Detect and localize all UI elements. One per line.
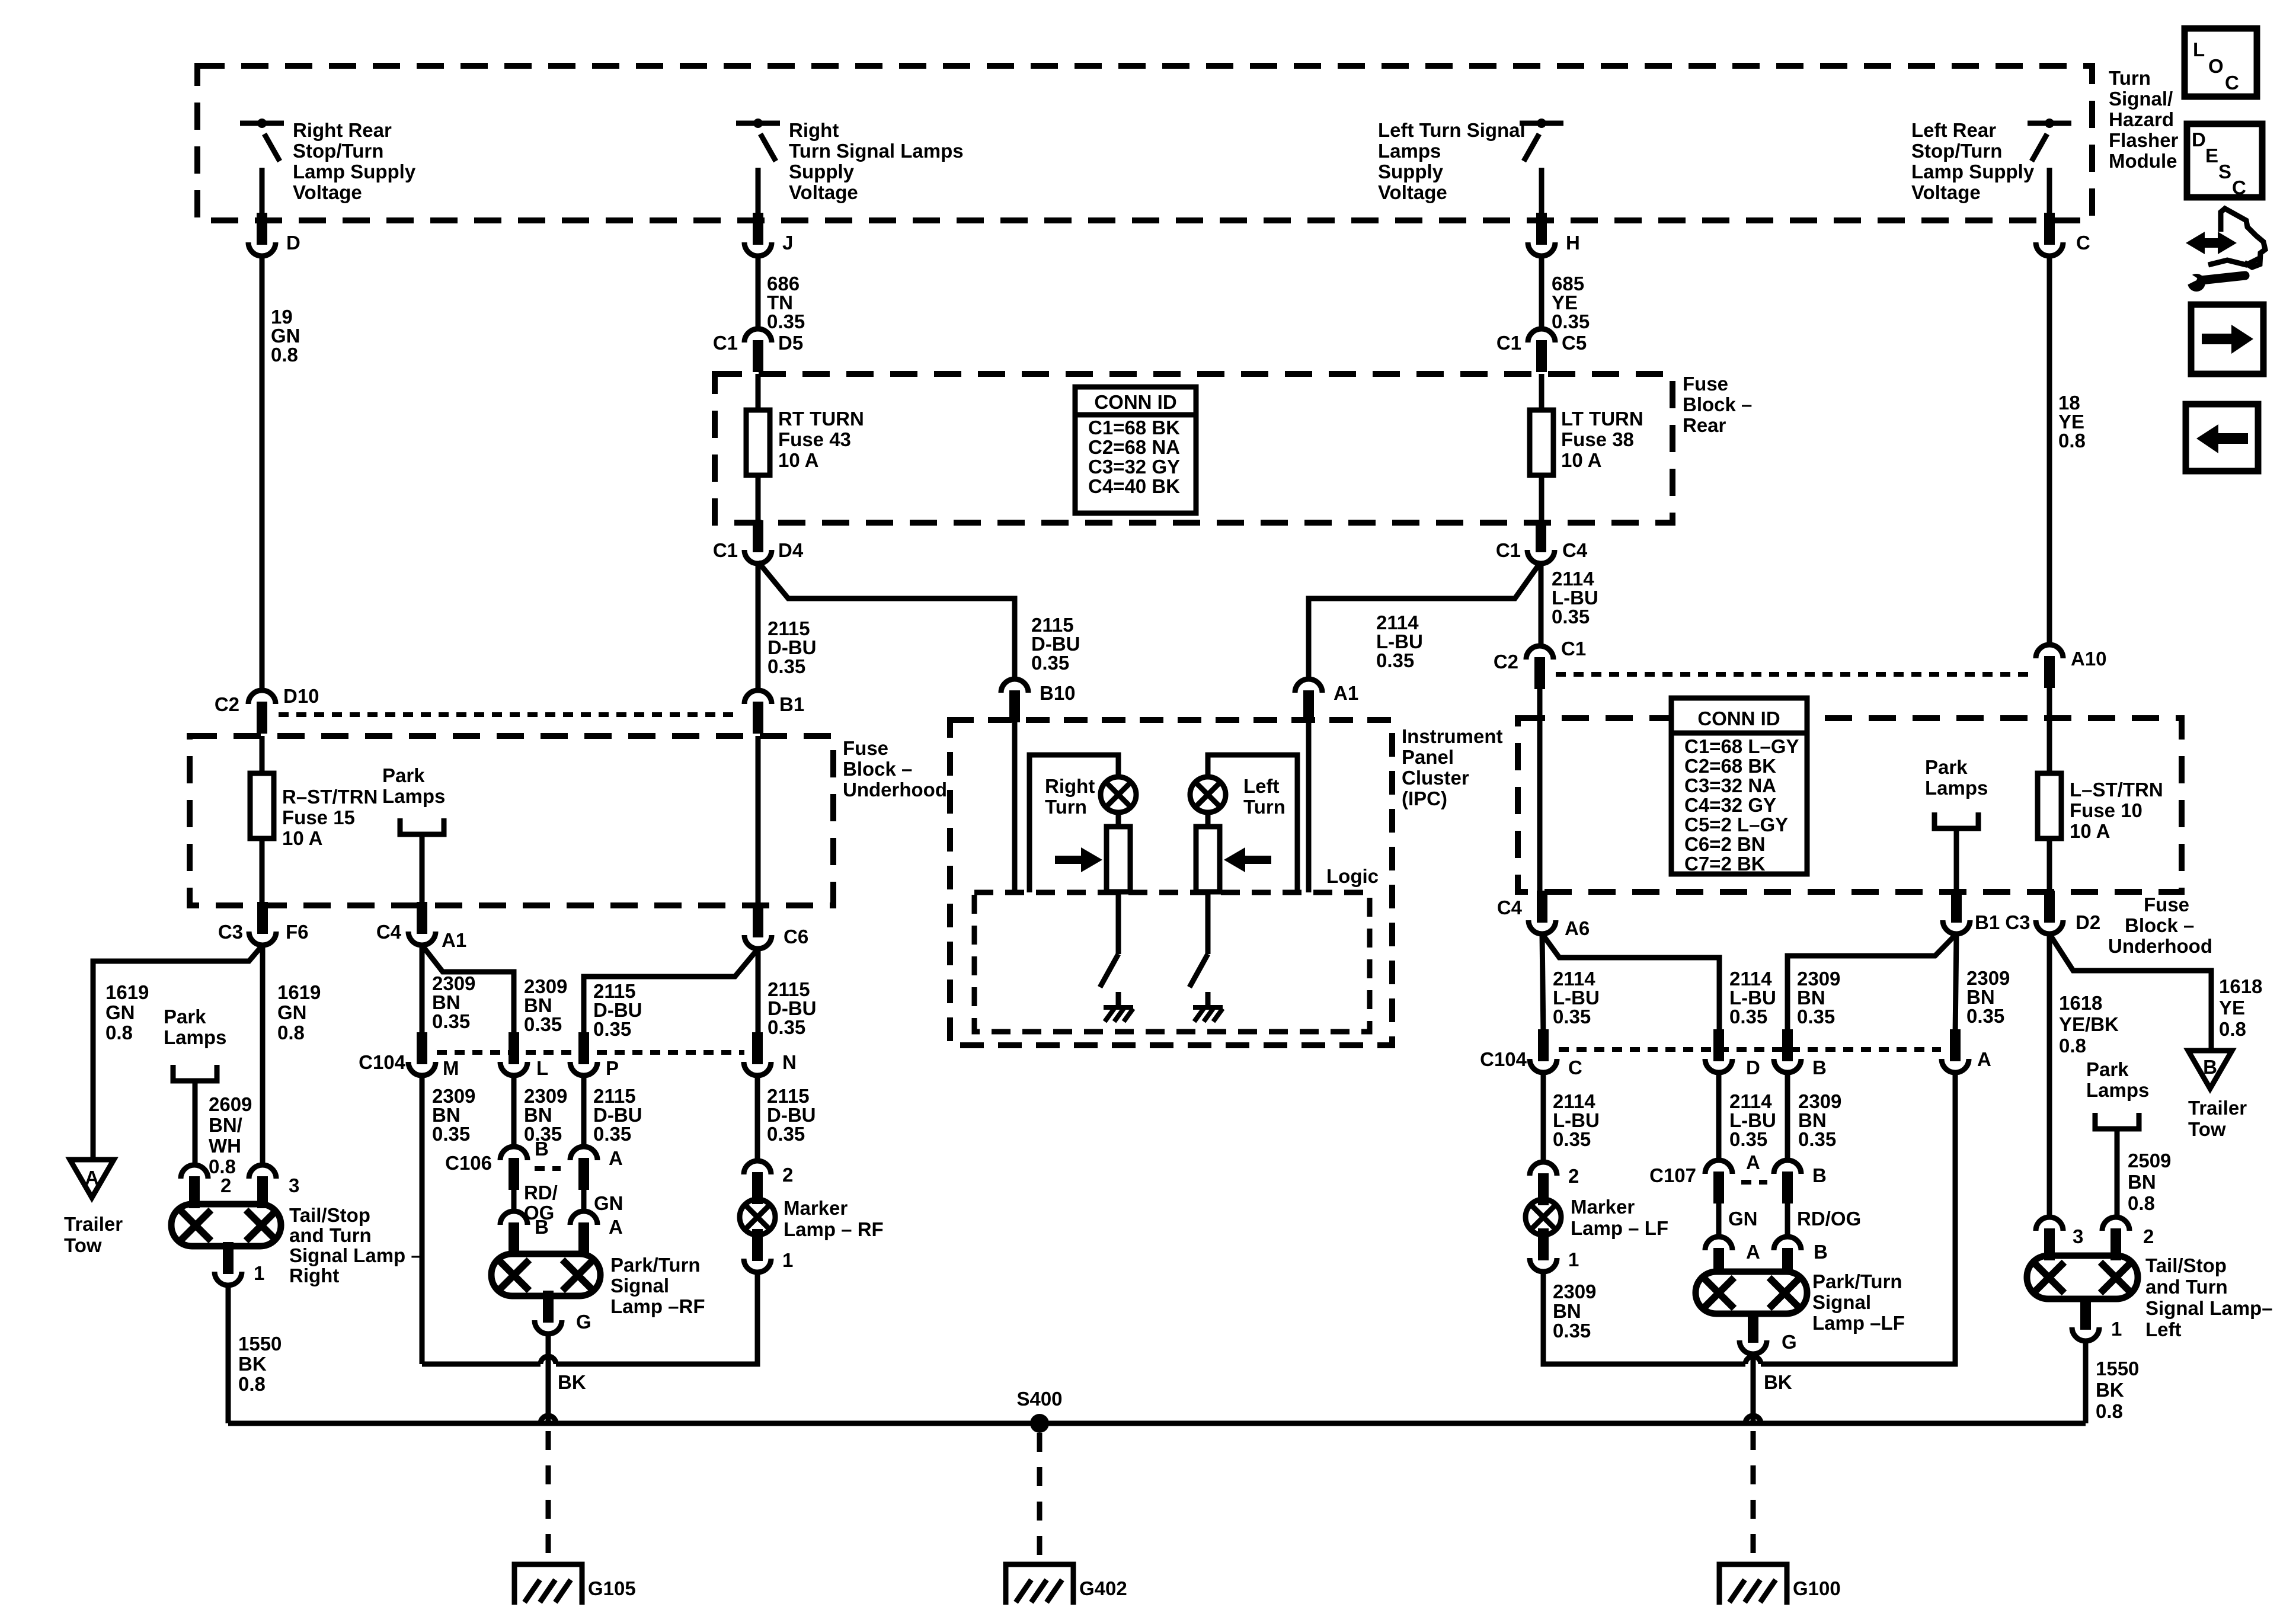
svg-text:Cluster: Cluster — [1402, 767, 1469, 789]
svg-text:C2=68 BK: C2=68 BK — [1684, 755, 1776, 777]
svg-text:A1: A1 — [1334, 682, 1358, 704]
svg-text:0.35: 0.35 — [1552, 311, 1590, 332]
resistor left turn — [1196, 827, 1220, 892]
svg-text:C1: C1 — [713, 539, 738, 561]
svg-text:B10: B10 — [1040, 682, 1076, 704]
svg-text:C3: C3 — [218, 921, 243, 943]
svg-text:B: B — [535, 1138, 549, 1160]
tail/stop and turn signal lamp right — [171, 1204, 281, 1246]
svg-text:G402: G402 — [1079, 1577, 1127, 1599]
svg-text:A: A — [609, 1147, 623, 1169]
svg-text:Turn Signal Lamps: Turn Signal Lamps — [789, 140, 964, 162]
connector C104 row right, dotted — [1559, 1047, 1941, 1052]
fuse R-ST/TRN Fuse 15 10A — [250, 773, 274, 838]
svg-text:Voltage: Voltage — [789, 181, 858, 203]
svg-text:Fuse 10: Fuse 10 — [2070, 799, 2142, 821]
wire: 2114 L-BU branch from A6 to C104 D — [1542, 934, 1719, 1035]
svg-text:BK: BK — [238, 1353, 267, 1375]
svg-text:S: S — [2218, 161, 2231, 183]
svg-text:A: A — [85, 1167, 99, 1189]
svg-text:A: A — [1977, 1048, 1991, 1070]
ground G105 — [514, 1564, 582, 1605]
svg-text:0.8: 0.8 — [277, 1022, 305, 1044]
svg-text:0.8: 0.8 — [2059, 1035, 2086, 1057]
logic box — [974, 892, 1370, 1032]
svg-text:Panel: Panel — [1402, 746, 1454, 768]
svg-text:WH: WH — [209, 1135, 241, 1157]
fuse RT TURN Fuse 43 10A — [746, 410, 770, 475]
park/turn signal lamp RF — [491, 1254, 600, 1296]
tail/stop left pin 1 — [2072, 1327, 2099, 1341]
wire loop logic to right turn indicator — [1029, 755, 1118, 892]
park/turn LF lamp pin A — [1705, 1237, 1732, 1250]
connector pin B1 (underhood) — [744, 690, 772, 704]
svg-text:1: 1 — [782, 1249, 793, 1271]
svg-text:Fuse: Fuse — [2144, 894, 2189, 916]
connector C3 pin F6 — [249, 932, 276, 945]
svg-text:Lamp Supply: Lamp Supply — [1911, 161, 2035, 183]
svg-text:C4=32 GY: C4=32 GY — [1684, 794, 1776, 816]
svg-text:C7=2 BK: C7=2 BK — [1684, 853, 1766, 875]
marker lamp RF pin 1 — [744, 1259, 771, 1272]
svg-text:Block –: Block – — [843, 758, 912, 780]
svg-text:B: B — [1812, 1164, 1827, 1186]
svg-text:RT TURN: RT TURN — [778, 408, 864, 430]
connector pin D of flasher module — [248, 242, 276, 256]
wire: 2114 L-BU from A6 down to C104 C — [1542, 934, 1543, 1035]
svg-text:Tow: Tow — [64, 1234, 102, 1256]
wire: 2309 BN from B1C3 down to C104 A — [1955, 934, 1956, 1035]
wire bulb to resistor — [1116, 812, 1121, 827]
tail/stop lamp right pin 3 — [249, 1165, 276, 1179]
svg-text:A6: A6 — [1565, 917, 1590, 939]
wire park lamps to B1C3 — [1954, 828, 1959, 891]
svg-text:0.35: 0.35 — [593, 1018, 631, 1040]
svg-text:0.35: 0.35 — [1553, 1006, 1591, 1028]
svg-text:0.8: 0.8 — [2219, 1018, 2246, 1040]
connector C4 pin A6 — [1528, 920, 1556, 934]
switch to ground (left turn) — [1205, 892, 1211, 954]
svg-text:B1 C3: B1 C3 — [1975, 911, 2030, 933]
svg-text:C104: C104 — [1480, 1048, 1527, 1070]
wire 2309 BN from C104 A to splice run — [1761, 1073, 1955, 1364]
svg-text:10 A: 10 A — [282, 827, 322, 849]
svg-text:Left: Left — [1243, 775, 1280, 797]
right turn signal switch — [736, 121, 780, 126]
svg-text:0.35: 0.35 — [1966, 1005, 2004, 1027]
svg-text:C3=32 GY: C3=32 GY — [1088, 456, 1180, 478]
svg-text:BK: BK — [558, 1371, 586, 1393]
fuse block rear box — [715, 374, 1673, 523]
wire: 1618 YE/BK 0.8 from D2 to tail lamp left pin 3 — [2047, 934, 2052, 1217]
svg-text:0.35: 0.35 — [1797, 1006, 1835, 1028]
svg-text:C4=40 BK: C4=40 BK — [1088, 475, 1180, 497]
ground drop G105 — [546, 1431, 551, 1566]
svg-text:Turn: Turn — [1045, 796, 1087, 818]
svg-text:1618: 1618 — [2219, 975, 2262, 997]
svg-text:BN/: BN/ — [209, 1114, 242, 1136]
connector pin J of flasher module — [744, 242, 772, 256]
park/turn RF lamp pin B — [500, 1211, 527, 1225]
svg-text:Trailer: Trailer — [2188, 1097, 2247, 1119]
wire: 2114 L-BU branch from C4 to IPC A1 — [1309, 562, 1541, 679]
svg-text:C3=32 NA: C3=32 NA — [1684, 774, 1776, 796]
svg-text:Voltage: Voltage — [1911, 181, 1981, 203]
svg-text:L: L — [2193, 39, 2205, 60]
svg-text:Fuse: Fuse — [1683, 373, 1728, 395]
wire 1550 BK 0.8 pin1 to ground bus — [2083, 1341, 2089, 1423]
svg-text:C1: C1 — [713, 332, 738, 354]
svg-text:1619: 1619 — [277, 981, 321, 1003]
wire marker RF pin1 to splice run — [556, 1272, 757, 1364]
connector C107 pin B — [1774, 1160, 1801, 1174]
svg-text:G105: G105 — [588, 1577, 636, 1599]
connector C104 pin D — [1705, 1059, 1732, 1073]
wire 2114 L-BU 0.35 from C104 D to C107 A — [1716, 1073, 1722, 1160]
wire bulb to resistor — [1205, 812, 1211, 827]
svg-text:C1: C1 — [1496, 539, 1521, 561]
svg-text:M: M — [443, 1057, 459, 1079]
svg-text:Rear: Rear — [1683, 414, 1726, 436]
svg-text:BN: BN — [1553, 1300, 1581, 1322]
ground drop G100 — [1751, 1431, 1756, 1566]
wire: 2309 BN branch from B1C3 to C104 B — [1787, 934, 1956, 1035]
svg-text:D2: D2 — [2076, 911, 2100, 933]
svg-text:Voltage: Voltage — [1378, 181, 1447, 203]
svg-text:Lamp – LF: Lamp – LF — [1571, 1217, 1668, 1239]
svg-text:0.35: 0.35 — [1553, 1320, 1591, 1342]
svg-text:Fuse 38: Fuse 38 — [1561, 428, 1634, 450]
fuse block underhood (right) box — [1518, 718, 2182, 892]
svg-text:C4: C4 — [1562, 539, 1588, 561]
svg-text:Left: Left — [2145, 1318, 2182, 1340]
svg-text:B1: B1 — [779, 693, 804, 715]
svg-text:Stop/Turn: Stop/Turn — [1911, 140, 2002, 162]
svg-text:0.8: 0.8 — [105, 1022, 133, 1044]
svg-text:Park: Park — [2086, 1058, 2129, 1080]
tail/stop and turn signal lamp left — [2027, 1256, 2138, 1299]
wire loop logic to left turn indicator — [1208, 755, 1297, 892]
wire: 1618 YE branch from D2 to trailer tow B — [2049, 934, 2211, 1051]
connector C104 pin L — [500, 1062, 527, 1076]
connector pin C of flasher module — [2036, 242, 2063, 256]
connector C2 pin D10 — [248, 690, 276, 704]
ground G100 — [1719, 1564, 1787, 1605]
connector C104 row left, dotted — [437, 1050, 744, 1055]
svg-text:Module: Module — [2109, 150, 2177, 172]
svg-text:2: 2 — [1568, 1165, 1579, 1187]
wire: 2115 D-BU from C6 down to C104 N — [756, 949, 761, 1038]
wire RD/OG C106 B to lamp pin B — [511, 1190, 517, 1211]
svg-text:0.35: 0.35 — [767, 311, 805, 332]
park/turn RF lamp pin A — [570, 1211, 597, 1225]
svg-text:C104: C104 — [359, 1051, 406, 1073]
switch to ground (right turn) — [1116, 892, 1121, 954]
wire: circuit 19 GN 0.8 from module D down to fuse block underhood — [260, 256, 265, 690]
svg-text:RD/: RD/ — [524, 1182, 558, 1204]
wire: circuit 686 TN 0.35 from module J to fuse block rear — [756, 256, 761, 329]
svg-text:0.35: 0.35 — [1729, 1128, 1767, 1150]
svg-text:D: D — [286, 232, 300, 254]
svg-text:C2: C2 — [1494, 651, 1518, 673]
svg-text:Instrument: Instrument — [1402, 725, 1503, 747]
connector C107 pin A — [1705, 1160, 1732, 1174]
svg-text:D5: D5 — [778, 332, 803, 354]
wire 2309 BN 0.35 from C104 B to C107 B — [1785, 1073, 1790, 1160]
svg-text:C: C — [2232, 177, 2246, 199]
marker lamp LF pin 1 — [1530, 1258, 1557, 1272]
svg-text:Turn: Turn — [2109, 67, 2151, 89]
svg-text:C1=68 BK: C1=68 BK — [1088, 417, 1180, 438]
svg-text:E: E — [2205, 145, 2218, 167]
wire: 2309 BN branch from A1 to C104 L — [422, 945, 514, 1038]
svg-text:2: 2 — [782, 1164, 793, 1186]
svg-text:Flasher: Flasher — [2109, 129, 2179, 151]
splice S400 — [1030, 1414, 1049, 1433]
svg-text:RD/OG: RD/OG — [1797, 1208, 1861, 1230]
svg-text:0.35: 0.35 — [432, 1010, 470, 1032]
svg-text:B: B — [1812, 1057, 1827, 1078]
connector C104 pin P — [570, 1062, 597, 1076]
svg-text:P: P — [606, 1057, 619, 1079]
svg-text:0.35: 0.35 — [1552, 606, 1590, 628]
svg-text:G: G — [1782, 1331, 1797, 1353]
wire A10 into L-ST/TRN fuse — [2047, 681, 2052, 773]
ground bus wire — [228, 1421, 2086, 1426]
CONN ID table (underhood) — [1671, 698, 1807, 874]
svg-text:GN: GN — [105, 1001, 135, 1023]
svg-text:0.35: 0.35 — [1553, 1128, 1591, 1150]
svg-text:R–ST/TRN: R–ST/TRN — [282, 786, 378, 808]
svg-text:0.8: 0.8 — [271, 344, 298, 366]
wire B10 into logic — [1012, 720, 1018, 892]
svg-text:Lamps: Lamps — [382, 785, 445, 807]
svg-text:Park: Park — [382, 764, 425, 786]
wire B1 to C6 inside underhood box — [756, 736, 761, 905]
svg-text:C2: C2 — [215, 693, 239, 715]
svg-text:CONN ID: CONN ID — [1094, 391, 1176, 413]
svg-text:Right: Right — [1045, 775, 1095, 797]
svg-text:Supply: Supply — [789, 161, 855, 183]
svg-text:BN: BN — [2128, 1171, 2156, 1193]
CONN ID table (fuse block rear) — [1075, 387, 1196, 513]
svg-text:Lamps: Lamps — [1925, 777, 1988, 799]
marker lamp RF pin 2 — [744, 1161, 771, 1174]
svg-text:L: L — [536, 1057, 548, 1079]
module box: Turn Signal/Hazard Flasher Module — [197, 66, 2092, 220]
svg-text:2: 2 — [220, 1174, 231, 1196]
park/turn signal lamp LF — [1696, 1272, 1807, 1314]
connector pin D2 — [2036, 920, 2063, 934]
svg-text:1: 1 — [1568, 1249, 1579, 1270]
svg-text:N: N — [782, 1051, 797, 1073]
svg-text:G100: G100 — [1793, 1577, 1841, 1599]
ground (left turn logic) — [1193, 1007, 1223, 1022]
svg-text:C: C — [1568, 1057, 1582, 1078]
svg-text:C107: C107 — [1649, 1164, 1696, 1186]
svg-text:Tail/Stop: Tail/Stop — [289, 1204, 370, 1226]
wire 2309 BN 0.35 from C104 M down to splice run — [420, 1076, 425, 1364]
svg-text:BK: BK — [1764, 1371, 1792, 1393]
svg-text:0.35: 0.35 — [432, 1123, 470, 1145]
svg-text:Marker: Marker — [784, 1197, 848, 1219]
svg-text:0.8: 0.8 — [2096, 1400, 2123, 1422]
svg-text:Park: Park — [1925, 756, 1968, 778]
wire 2114 L-BU 0.35 from C104 C to marker LF — [1541, 1073, 1546, 1162]
svg-text:0.8: 0.8 — [2058, 430, 2086, 452]
svg-text:2609: 2609 — [209, 1093, 252, 1115]
connector pin H of flasher module — [1528, 242, 1555, 256]
svg-text:L–ST/TRN: L–ST/TRN — [2070, 779, 2163, 801]
svg-text:Park/Turn: Park/Turn — [610, 1254, 701, 1276]
dotted connector row C2/B1 — [279, 712, 741, 717]
wire: 2114 L-BU 0.35 from C4 down to underhood C1 — [1539, 564, 1544, 646]
svg-text:Signal/: Signal/ — [2109, 88, 2173, 110]
splice bump right run — [1745, 1356, 1761, 1364]
dotted connector row C1/A10 — [1556, 672, 2033, 677]
svg-text:Right: Right — [789, 119, 839, 141]
wire out of LT TURN fuse — [1539, 475, 1544, 523]
svg-text:2509: 2509 — [2128, 1150, 2171, 1172]
svg-text:1550: 1550 — [238, 1333, 282, 1355]
wire G to ground run — [546, 1334, 551, 1423]
svg-text:A: A — [609, 1216, 623, 1238]
service info icon (double arrow, outline, wrench) — [2186, 232, 2237, 254]
svg-text:D10: D10 — [283, 685, 319, 707]
svg-text:1: 1 — [254, 1262, 264, 1284]
LOC box icon — [2185, 28, 2257, 97]
svg-text:S400: S400 — [1016, 1388, 1062, 1410]
fuse L-ST/TRN Fuse 10 10A — [2038, 773, 2061, 838]
wire into R-ST/TRN fuse — [260, 736, 265, 773]
svg-text:B: B — [535, 1216, 549, 1238]
trailer tow connector A — [70, 1160, 114, 1198]
wire 2609 BN/WH 0.8 park lamps to pin 2 — [193, 1081, 198, 1165]
splice bump left run — [541, 1356, 556, 1364]
wire: 1619 GN 0.8 from F6 to tail lamp right pin 3 — [260, 945, 266, 1165]
svg-text:Block –: Block – — [1683, 393, 1752, 415]
svg-text:Tail/Stop: Tail/Stop — [2145, 1254, 2227, 1276]
svg-text:Stop/Turn: Stop/Turn — [293, 140, 383, 162]
svg-text:Fuse 15: Fuse 15 — [282, 806, 355, 828]
wire 2309 BN 0.35 from C104 L to C106 B — [511, 1076, 517, 1147]
svg-text:0.35: 0.35 — [1376, 649, 1414, 671]
connector C6 (underhood to front harness) — [744, 935, 772, 949]
svg-text:3: 3 — [2073, 1225, 2083, 1247]
svg-text:0.8: 0.8 — [238, 1373, 266, 1395]
splice bump G105 — [541, 1416, 556, 1423]
wire RD/OG C107 B to lamp pin B — [1785, 1204, 1790, 1237]
svg-text:Signal Lamp–: Signal Lamp– — [2145, 1297, 2273, 1319]
svg-text:YE/BK: YE/BK — [2059, 1013, 2119, 1035]
svg-text:C1: C1 — [1561, 638, 1586, 660]
wire out of L-ST/TRN fuse — [2047, 838, 2052, 891]
svg-text:A10: A10 — [2071, 648, 2107, 670]
svg-text:Fuse 43: Fuse 43 — [778, 428, 851, 450]
connector pin A10 — [2036, 645, 2063, 658]
svg-text:GN: GN — [277, 1001, 307, 1023]
svg-text:J: J — [782, 232, 793, 254]
connector C4 pin A1 — [408, 932, 436, 945]
park/turn LF lamp pin B — [1774, 1237, 1801, 1250]
svg-text:D: D — [2192, 129, 2206, 151]
svg-text:1550: 1550 — [2096, 1358, 2139, 1379]
connector C104 pin C — [1530, 1059, 1557, 1073]
wire out of RT TURN fuse — [756, 475, 761, 523]
wire 2115 D-BU 0.35 from C104 P to C106 A — [581, 1076, 587, 1147]
wire: 2309 BN from A1 down to C104 M — [420, 945, 425, 1038]
svg-text:Lamps: Lamps — [2086, 1079, 2149, 1101]
wire: circuit 685 YE 0.35 from module H to fuse block rear — [1539, 256, 1544, 329]
connector C106 pin A — [570, 1147, 597, 1160]
wire 2309 BN 0.35 marker LF pin1 to splice run — [1543, 1272, 1745, 1364]
svg-text:Underhood: Underhood — [2108, 935, 2212, 957]
svg-text:3: 3 — [289, 1174, 299, 1196]
svg-text:Trailer: Trailer — [64, 1213, 123, 1235]
left rear stop/turn switch — [2028, 121, 2071, 126]
svg-text:0.35: 0.35 — [1798, 1128, 1836, 1150]
svg-text:Lamps: Lamps — [164, 1026, 226, 1048]
svg-text:CONN ID: CONN ID — [1697, 708, 1780, 729]
svg-text:C5=2 L–GY: C5=2 L–GY — [1684, 814, 1788, 836]
svg-text:0.8: 0.8 — [2128, 1192, 2155, 1214]
ground G402 — [1006, 1564, 1073, 1605]
svg-text:GN: GN — [594, 1192, 623, 1214]
svg-text:Right Rear: Right Rear — [293, 119, 392, 141]
svg-text:and Turn: and Turn — [289, 1224, 372, 1246]
wire into RT TURN fuse — [756, 374, 761, 410]
svg-text:Block –: Block – — [2125, 914, 2194, 936]
svg-text:C2=68 NA: C2=68 NA — [1088, 436, 1180, 458]
wire C1 to A6 inside box — [1537, 681, 1543, 891]
svg-text:Marker: Marker — [1571, 1196, 1635, 1218]
svg-text:Logic: Logic — [1326, 865, 1379, 887]
svg-text:Signal Lamp –: Signal Lamp – — [289, 1244, 422, 1266]
wire A1 into logic — [1306, 720, 1312, 892]
svg-text:A1: A1 — [442, 929, 466, 951]
svg-text:B: B — [2203, 1056, 2217, 1078]
svg-text:C1=68 L–GY: C1=68 L–GY — [1684, 735, 1799, 757]
svg-text:and Turn: and Turn — [2145, 1276, 2228, 1298]
svg-text:YE: YE — [2219, 997, 2245, 1019]
wire: 2115 D-BU branch from D4 to IPC B10 — [758, 562, 1015, 679]
ground drop G402 — [1037, 1433, 1043, 1566]
splice bump G100 — [1745, 1416, 1761, 1423]
svg-text:Right: Right — [289, 1265, 339, 1286]
right arrow marker — [1055, 847, 1102, 872]
ground (right turn logic) — [1104, 1007, 1133, 1022]
svg-text:GN: GN — [1728, 1208, 1758, 1230]
svg-text:Underhood: Underhood — [843, 779, 947, 801]
svg-text:G: G — [576, 1311, 591, 1333]
svg-text:Voltage: Voltage — [293, 181, 362, 203]
svg-text:A: A — [1746, 1151, 1760, 1173]
svg-text:D4: D4 — [778, 539, 804, 561]
svg-text:0.35: 0.35 — [1729, 1006, 1767, 1028]
wire 2115 D-BU 0.35 from C104 N to marker lamp RF — [755, 1076, 760, 1161]
tail/stop right pin 1 — [215, 1272, 242, 1285]
svg-text:Left Rear: Left Rear — [1911, 119, 1996, 141]
svg-text:Lamp Supply: Lamp Supply — [293, 161, 416, 183]
wire out of R-ST/TRN fuse — [260, 838, 265, 905]
DESC box icon — [2187, 124, 2262, 197]
right turn indicator bulb — [1101, 777, 1136, 812]
resistor right turn — [1107, 827, 1130, 892]
park/turn LF lamp pin G — [1739, 1340, 1767, 1354]
svg-text:Supply: Supply — [1378, 161, 1444, 183]
svg-text:D: D — [1746, 1057, 1760, 1078]
connector C1 pin C4 — [1527, 550, 1555, 564]
